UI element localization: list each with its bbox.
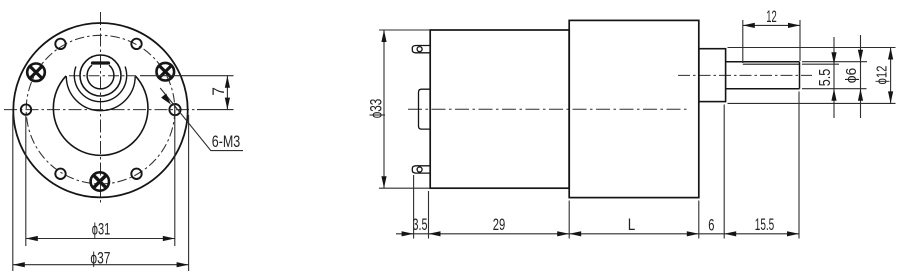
arrows at 569.2: [557, 231, 569, 236]
dimension ø31 arrows: [26, 236, 38, 241]
dimension ø37 extension lines: [13, 114, 189, 271]
dimension 7 arrows: [225, 76, 230, 88]
gear chamber arc: [53, 76, 148, 155]
bolt circle ø31 (dashed): [26, 35, 175, 184]
screw symbol (36,72.3): [27, 64, 45, 82]
dimension ø37 line: [13, 264, 189, 266]
terminal hole top: [417, 47, 422, 52]
arrow at 698.8: [687, 231, 699, 236]
vertical centerline: [100, 12, 102, 205]
dimension 12 arrows: [743, 23, 755, 28]
shaft boss circle: [80, 55, 121, 96]
screw symbol (165.3,71.7): [157, 63, 175, 81]
plain hole (136.5,43.9): [131, 39, 141, 49]
svg-text:L: L: [628, 215, 636, 234]
gearbox body: [569, 20, 699, 197]
D-hole flat: [93, 61, 109, 64]
svg-text:ϕ31: ϕ31: [92, 220, 111, 239]
svg-text:3.5: 3.5: [413, 215, 428, 234]
dimension 12 extension lines: [743, 20, 800, 63]
plain hole left (26,109.6): [21, 104, 31, 114]
svg-text:6-M3: 6-M3: [212, 132, 241, 151]
arrow at 428.5: [429, 231, 441, 236]
bottom chain dimension line: [396, 233, 799, 235]
dimension 5.5 arrows: [831, 52, 836, 64]
terminal hole bottom: [417, 167, 422, 172]
dimension 12 line: [743, 24, 800, 26]
relief arc r26 under boss: [74, 67, 126, 102]
shaft centerline: [678, 74, 812, 76]
terminal tab bottom: [412, 166, 430, 173]
dimension ø33 line: [383, 30, 385, 188]
plain hole (60.5,43.9): [55, 39, 65, 49]
shaft flat edge: [743, 63, 800, 65]
bottom chain extension lines: [414, 92, 799, 239]
rear cap bump: [419, 89, 431, 129]
terminal tab top: [412, 46, 430, 53]
arrow at 799: [787, 231, 799, 236]
dimension 7 extension lines: [140, 76, 234, 110]
relief arc r34 under boss: [66, 76, 135, 111]
shaft horizontal centerline: [69, 75, 136, 77]
plain hole right 6-M3 (175,109.6): [169, 104, 180, 115]
dimension ø37 arrows: [13, 262, 25, 267]
output boss: [699, 49, 726, 102]
motor centerline: [408, 108, 689, 110]
outer circle ø37: [13, 23, 187, 197]
horizontal centerline: [4, 109, 197, 111]
screw symbol (99.8,181.5): [91, 172, 109, 190]
svg-text:15.5: 15.5: [755, 215, 775, 234]
svg-text:6: 6: [708, 216, 714, 235]
dimension ø12 arrows: [888, 48, 893, 60]
svg-text:29: 29: [493, 215, 506, 234]
svg-text:ϕ37: ϕ37: [90, 248, 110, 267]
dimension 5.5 line: [833, 37, 835, 118]
dimension ø12 line: [890, 48, 892, 104]
dimension 7 line: [226, 76, 228, 110]
output shaft: [726, 62, 800, 89]
arrow at 413.6: [402, 231, 414, 236]
dimension ø6 arrows: [858, 50, 863, 62]
dimension ø31 line: [26, 238, 175, 240]
svg-text:ϕ33: ϕ33: [367, 99, 386, 119]
svg-text:ϕ6: ϕ6: [843, 68, 860, 84]
motor body: [430, 30, 569, 188]
dimension ø31 extension lines: [26, 104, 175, 247]
right side extension lines: [728, 48, 896, 104]
plain hole (136.5,173.8): [131, 169, 141, 179]
dimension ø6 line: [860, 35, 862, 118]
plain hole (60.5,173.8): [55, 169, 65, 179]
arrow at 724.2: [724, 231, 736, 236]
dimension ø33 extension lines: [379, 30, 430, 188]
D-shaped shaft hole: [87, 65, 114, 89]
svg-text:ϕ12: ϕ12: [874, 66, 891, 85]
svg-text:12: 12: [766, 7, 777, 26]
dimension ø33 arrows: [381, 30, 386, 42]
svg-text:5.5: 5.5: [817, 69, 834, 87]
leader 6-M3 arrowhead: [161, 94, 171, 105]
svg-text:7: 7: [209, 87, 228, 96]
leader 6-M3: [160, 88, 243, 151]
